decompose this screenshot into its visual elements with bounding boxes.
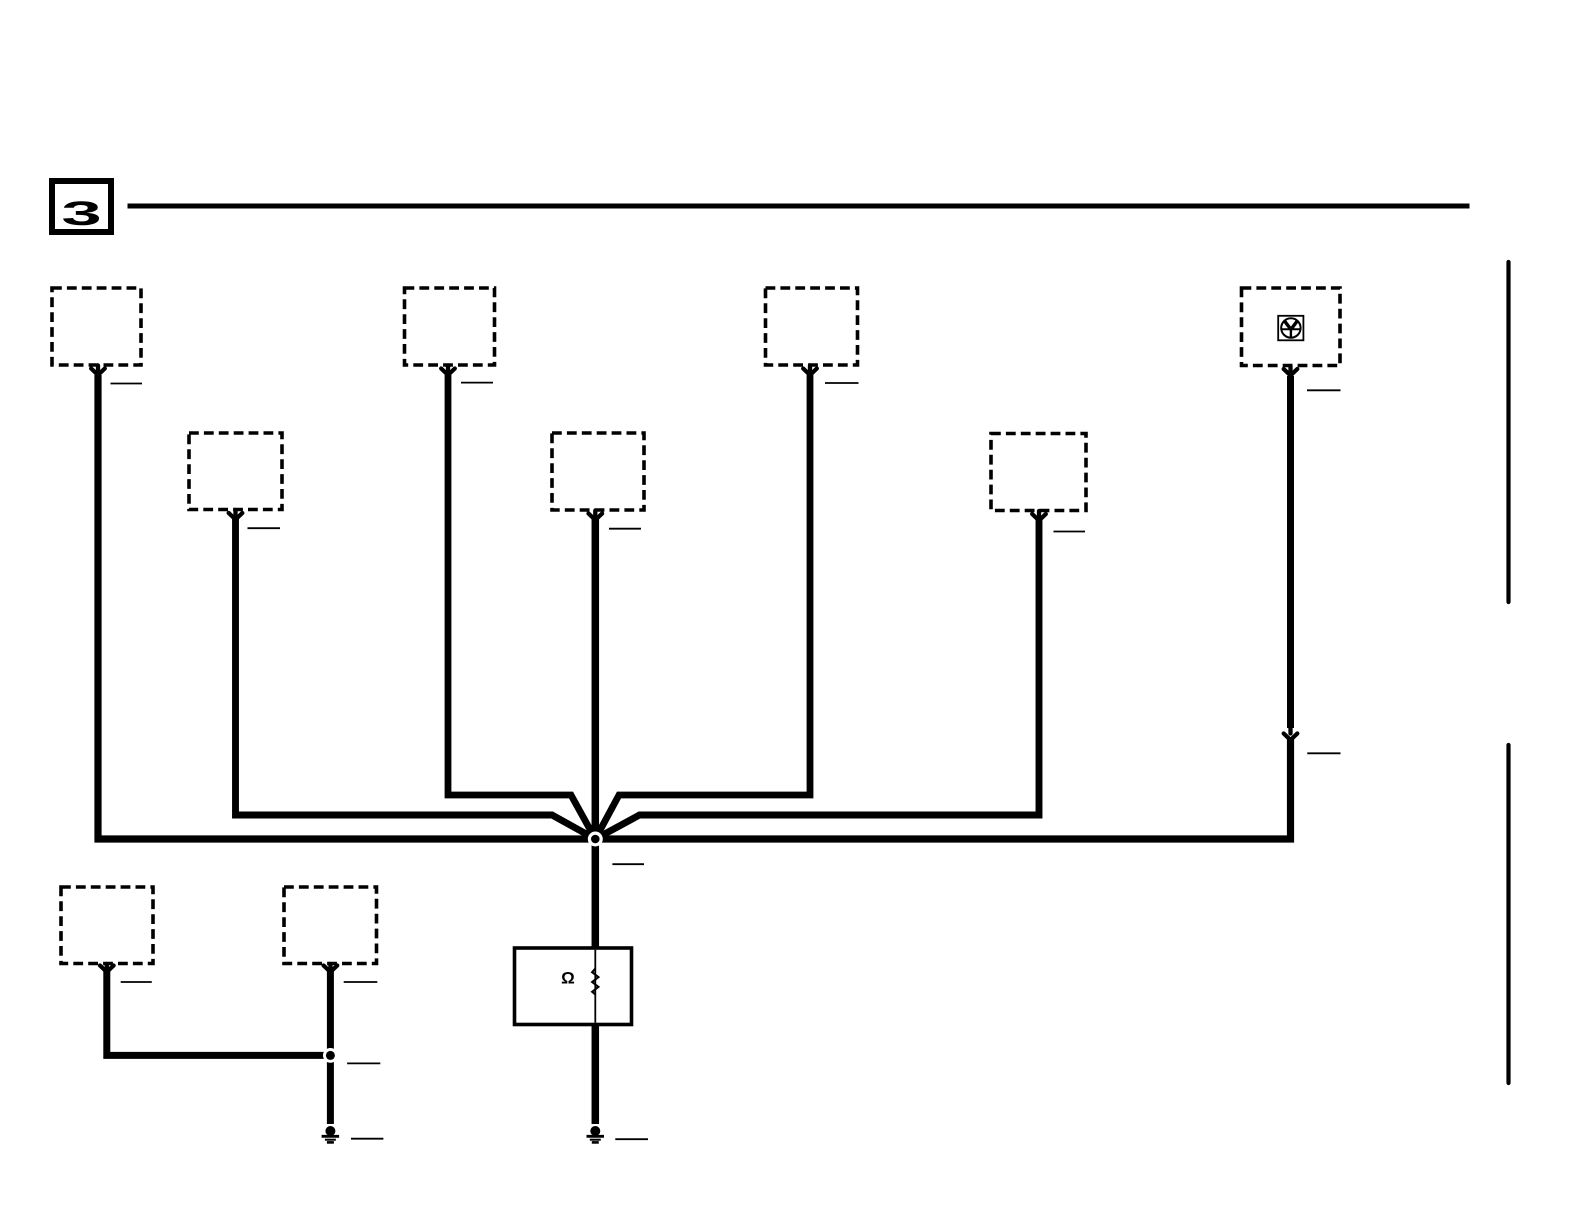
svg-text:Ω: Ω (561, 969, 575, 988)
svg-text:3: 3 (61, 194, 101, 232)
